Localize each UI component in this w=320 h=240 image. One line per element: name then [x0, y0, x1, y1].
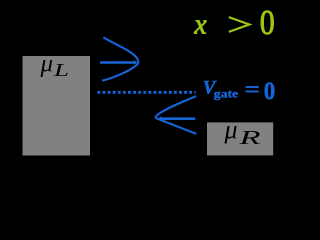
right reservoir rectangle mu_R [207, 122, 273, 155]
svg-text:gate: gate [214, 88, 239, 100]
equals sign of V_gate = 0 [246, 86, 259, 88]
upper dispersion curve lower branch [102, 62, 138, 80]
svg-text:0: 0 [264, 78, 276, 105]
right-pointing arrow shaft [100, 61, 134, 64]
left-pointing arrowhead [158, 116, 162, 121]
lower dispersion curve (right-opening, left mover) upper branch [155, 96, 196, 118]
left-pointing arrow shaft [161, 117, 195, 120]
svg-text:μ: μ [40, 51, 54, 78]
right-pointing arrowhead [134, 60, 138, 65]
left reservoir rectangle mu_L [23, 56, 91, 156]
greater-than sign [229, 17, 250, 32]
svg-text:L: L [53, 60, 69, 80]
svg-text:0: 0 [260, 4, 275, 42]
svg-text:μ: μ [224, 115, 238, 144]
dotted gate potential line [97, 91, 195, 94]
svg-text:x: x [193, 10, 207, 41]
lower dispersion curve lower branch [155, 118, 196, 134]
svg-text:R: R [238, 128, 261, 149]
upper dispersion curve (left-opening, right mover) upper branch [103, 37, 138, 62]
